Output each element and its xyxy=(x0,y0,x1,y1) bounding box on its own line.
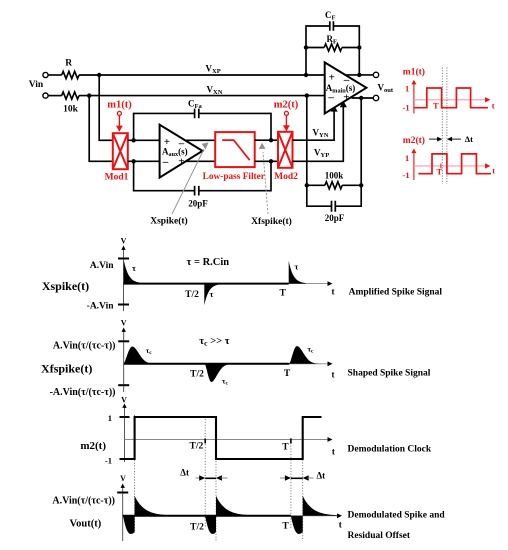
junction LPF top output xyxy=(269,138,273,142)
svg-text:CFa: CFa xyxy=(188,99,202,111)
junction on VXP at R xyxy=(97,73,101,77)
svg-text:t: t xyxy=(332,370,335,380)
capacitor 20pF(left) feedback wire xyxy=(134,161,271,190)
svg-text:m1(t): m1(t) xyxy=(403,67,425,78)
svg-text:t: t xyxy=(492,100,495,110)
svg-text:Vout: Vout xyxy=(378,82,394,94)
svg-text:Δt: Δt xyxy=(465,134,473,144)
svg-text:T: T xyxy=(437,167,443,177)
terminal Vin- xyxy=(43,93,48,98)
svg-text:Xspike(t): Xspike(t) xyxy=(150,215,187,226)
svg-text:–: – xyxy=(327,92,334,104)
op-amp Amain xyxy=(325,62,367,113)
svg-text:20pF: 20pF xyxy=(188,199,208,209)
wire LPF bottom output to Mod2 xyxy=(255,160,278,162)
svg-text:V: V xyxy=(120,474,126,483)
svg-text:τ: τ xyxy=(132,263,136,273)
m1 waveform xyxy=(414,88,488,108)
svg-text:-1: -1 xyxy=(105,456,112,466)
svg-text:Δt: Δt xyxy=(180,468,189,478)
chart4 lobe+spike at 0 xyxy=(123,496,177,534)
terminal Vout- xyxy=(373,95,378,100)
svg-text:Low-pass Filter: Low-pass Filter xyxy=(203,172,265,182)
chart2 +A tick xyxy=(118,340,129,342)
capacitor 20pF(right) branch xyxy=(307,185,361,206)
svg-text:A.Vin(τ/(τc-τ)): A.Vin(τ/(τc-τ)) xyxy=(53,341,116,352)
capacitor CFa feedback wire xyxy=(134,113,271,140)
wire Aaux top output to LPF xyxy=(185,139,215,141)
svg-text:Xfspike(t): Xfspike(t) xyxy=(41,362,92,376)
svg-text:20pF: 20pF xyxy=(325,213,345,223)
chart3 waveform xyxy=(125,417,322,459)
svg-text:T: T xyxy=(280,289,287,299)
svg-text:τ = R.Cin: τ = R.Cin xyxy=(187,257,230,268)
svg-text:T/2: T/2 xyxy=(185,290,199,300)
svg-text:τ: τ xyxy=(295,262,299,272)
svg-text:Vout(t): Vout(t) xyxy=(70,519,102,530)
chart2 bump at T/2 xyxy=(205,364,233,382)
svg-text:VXN: VXN xyxy=(207,85,223,97)
wire Aaux bottom output to LPF xyxy=(185,160,215,162)
chart3 T axis tick xyxy=(290,438,292,443)
svg-text:A.Vin: A.Vin xyxy=(90,261,114,271)
svg-text:-1: -1 xyxy=(403,170,410,180)
wire Amain top output xyxy=(346,74,374,76)
svg-text:VXP: VXP xyxy=(206,64,221,76)
low-pass filter symbol xyxy=(222,140,250,160)
svg-text:V: V xyxy=(121,396,127,405)
svg-text:RF: RF xyxy=(327,34,338,46)
svg-text:Xspike(t): Xspike(t) xyxy=(42,279,89,293)
clock source m2 circle xyxy=(284,111,288,115)
svg-text:10k: 10k xyxy=(63,105,79,115)
wire Amain bottom output xyxy=(352,97,374,99)
svg-text:+: + xyxy=(343,91,349,103)
m1 y-axis xyxy=(413,84,415,114)
chart2 bump at 0 xyxy=(124,347,154,364)
svg-text:A.Vin(τ/(τc-τ)): A.Vin(τ/(τc-τ)) xyxy=(52,496,115,507)
svg-text:Demodulation Clock: Demodulation Clock xyxy=(348,445,432,455)
svg-text:T/2: T/2 xyxy=(190,523,204,533)
chart4 +A tick xyxy=(117,492,128,494)
svg-text:T: T xyxy=(282,522,289,532)
svg-text:τc: τc xyxy=(308,345,314,355)
svg-text:T/2: T/2 xyxy=(190,370,204,380)
wire Mod1 bottom output to Aaux - xyxy=(128,160,160,162)
svg-text:-1: -1 xyxy=(403,102,410,112)
svg-text:R: R xyxy=(65,59,72,69)
svg-text:Xfspike(t): Xfspike(t) xyxy=(251,216,292,227)
svg-text:-A.Vin(τ/(τc-τ)): -A.Vin(τ/(τc-τ)) xyxy=(50,387,116,398)
svg-text:+: + xyxy=(329,72,335,84)
svg-text:+: + xyxy=(178,155,184,167)
svg-text:t: t xyxy=(339,520,342,530)
chart3 T/2 axis tick xyxy=(204,438,206,443)
chart2 bump at T xyxy=(289,346,319,364)
low-pass filter box xyxy=(215,132,255,167)
chart3 y-axis xyxy=(124,407,126,462)
clock arrow m1 to Mod1 xyxy=(118,116,120,126)
terminal Vin+ xyxy=(43,72,48,77)
svg-text:T: T xyxy=(282,442,289,452)
chart1 baseline bold xyxy=(124,283,289,285)
wire VXP to Mod1 top input xyxy=(99,75,112,140)
svg-text:Shaped Spike Signal: Shaped Spike Signal xyxy=(348,369,431,379)
svg-text:V: V xyxy=(121,319,127,328)
svg-text:Amplified Spike Signal: Amplified Spike Signal xyxy=(349,288,443,298)
svg-text:1: 1 xyxy=(405,84,409,94)
svg-text:Vin: Vin xyxy=(29,80,44,90)
chart4 t-axis xyxy=(123,515,338,517)
m2 t-axis (pink) xyxy=(414,165,486,167)
junction VXN / 100k left xyxy=(305,93,309,97)
svg-text:m1(t): m1(t) xyxy=(107,100,132,111)
svg-text:1: 1 xyxy=(405,153,409,163)
capacitor CFa plates xyxy=(195,109,199,119)
wire Mod1 top output to Aaux + xyxy=(128,139,160,141)
junction VXP / RF-CF left xyxy=(304,73,308,77)
wire VYN Mod2 top output to Amain xyxy=(293,110,335,140)
clock source m1 circle xyxy=(117,111,121,115)
junction Mod1 bottom output xyxy=(131,159,135,163)
capacitor CF plates xyxy=(330,21,334,30)
svg-text:T/2: T/2 xyxy=(190,441,204,451)
junction LPF bottom output xyxy=(269,159,273,163)
resistor 10k xyxy=(48,92,79,99)
pointer Xfspike gray dashed line xyxy=(263,152,268,214)
svg-text:–: – xyxy=(162,156,169,168)
chart3 +1 tick xyxy=(120,416,130,418)
m2 waveform xyxy=(418,154,491,174)
chart1 spike at T/2 xyxy=(204,284,222,306)
svg-text:t: t xyxy=(332,287,335,297)
chart4 lobe+spike at T xyxy=(291,496,339,534)
svg-text:-A.Vin: -A.Vin xyxy=(87,302,115,312)
svg-text:1: 1 xyxy=(108,413,112,423)
svg-text:T: T xyxy=(284,369,291,379)
dotted delay lines (top) xyxy=(442,68,447,185)
svg-text:VYN: VYN xyxy=(313,128,329,140)
chart1 spike at 0 xyxy=(124,260,148,283)
junction on VXN at 10k xyxy=(87,93,91,97)
capacitor CF branch wires xyxy=(306,26,359,75)
resistor R xyxy=(48,71,79,78)
wire VXN bottom xyxy=(79,95,325,97)
svg-text:V: V xyxy=(121,237,127,246)
svg-text:Demodulated Spike and: Demodulated Spike and xyxy=(348,511,446,521)
wire LPF top output to Mod2 xyxy=(255,139,278,141)
modulator Mod1 xyxy=(113,133,128,169)
svg-text:τc: τc xyxy=(222,376,228,386)
m2 y-axis xyxy=(413,153,415,180)
chart2 baseline bold xyxy=(124,363,290,365)
svg-text:Residual Offset: Residual Offset xyxy=(348,531,411,541)
svg-text:Mod1: Mod1 xyxy=(105,173,129,183)
capacitor 20pF(right) plates xyxy=(332,201,336,212)
svg-text:Δt: Δt xyxy=(317,471,326,481)
svg-text:τ: τ xyxy=(210,289,214,299)
chart1 A.Vin tick xyxy=(118,258,129,260)
junction 100k right xyxy=(359,183,363,187)
capacitor 20pF(left) plates xyxy=(195,186,199,196)
junction 100k left xyxy=(305,183,309,187)
svg-text:m2(t): m2(t) xyxy=(274,100,299,111)
modulator Mod2 xyxy=(278,132,293,168)
svg-text:T: T xyxy=(433,101,439,111)
junction RF left xyxy=(304,45,308,49)
pointer Xspike gray line xyxy=(172,149,204,214)
junction top output / RF-CF xyxy=(357,73,361,77)
terminal Vout+ xyxy=(373,72,378,77)
chart2 -A tick xyxy=(118,384,129,386)
chart1 t-axis xyxy=(124,283,329,285)
chart3 -1 tick xyxy=(120,458,130,460)
svg-text:τc: τc xyxy=(146,346,152,356)
wire VXN to Mod1 bottom input xyxy=(89,96,112,162)
resistor 100k branch xyxy=(307,96,361,186)
chart2 t-axis xyxy=(124,363,329,365)
chart4 lobe+spike at T/2 xyxy=(205,496,258,534)
m1 t-axis (pink) xyxy=(414,99,486,101)
chart1 y-axis xyxy=(123,249,125,311)
m2 T tick xyxy=(440,164,442,169)
svg-text:τc >> τ: τc >> τ xyxy=(199,336,229,348)
svg-text:Mod2: Mod2 xyxy=(274,172,298,182)
op-amp Aaux xyxy=(160,125,203,178)
svg-text:m2(t): m2(t) xyxy=(403,135,425,146)
chart2 y-axis xyxy=(123,331,125,392)
wire VYP Mod2 bottom output to Amain xyxy=(293,106,344,162)
junction RF right xyxy=(357,45,361,49)
chart1 -A.Vin tick xyxy=(118,304,129,306)
chart1 spike at T xyxy=(289,261,306,284)
chart4 y-axis xyxy=(122,487,124,541)
delta-t marker at T xyxy=(280,477,287,479)
svg-text:100k: 100k xyxy=(325,171,344,181)
svg-text:VYP: VYP xyxy=(314,147,329,159)
svg-text:m2(t): m2(t) xyxy=(80,440,106,452)
chart3 t-axis xyxy=(125,439,329,441)
resistor RF xyxy=(306,47,359,49)
delta-t marker (top) xyxy=(429,138,438,140)
chart4 baseline bold xyxy=(123,515,291,517)
svg-text:CF: CF xyxy=(325,10,336,22)
junction Mod1 top output xyxy=(131,138,135,142)
svg-text:t: t xyxy=(332,447,335,457)
wire VXP top xyxy=(79,74,325,76)
dotted time-reference lines xyxy=(135,415,303,541)
clock arrow m2 to Mod2 xyxy=(285,116,287,126)
svg-text:t: t xyxy=(492,166,495,176)
junction bottom output / 100k-20pF xyxy=(359,96,363,100)
